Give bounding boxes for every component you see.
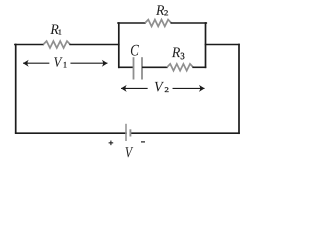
wire bottom (left of battery) (16, 132, 126, 134)
label V1 (54, 57, 66, 67)
arrow V2 left (121, 85, 147, 92)
wire box left edge (118, 23, 120, 67)
label R3 (172, 48, 185, 60)
wire right edge (238, 45, 240, 134)
label V2 (155, 82, 169, 92)
wire bottom (right of battery) (130, 132, 239, 134)
resistor R2 (145, 20, 171, 27)
wire mid-right (box to right edge) (206, 44, 240, 46)
label V (battery) (126, 147, 134, 157)
wire box top branch (right of R2) (171, 22, 206, 24)
label R1 (50, 25, 61, 35)
wire top-left (left of R1) (15, 44, 43, 46)
wire box top branch (left of R2) (118, 22, 145, 24)
capacitor C (134, 57, 143, 79)
resistor R3 (167, 64, 193, 71)
label battery minus (141, 141, 145, 143)
label C (131, 45, 139, 56)
wire box right edge (205, 23, 207, 67)
wire box bottom branch (C to R3) (143, 66, 167, 68)
battery V (126, 124, 130, 141)
arrow V1 right (71, 60, 108, 67)
arrow V1 left (23, 60, 49, 67)
arrow V2 right (173, 85, 205, 92)
wire box bottom branch (right of R3) (193, 66, 205, 68)
wire box bottom branch (left of C) (119, 66, 133, 68)
label R2 (156, 5, 168, 15)
wire left edge (15, 45, 17, 133)
resistor R1 (43, 41, 70, 48)
label battery plus (109, 141, 114, 146)
wire top-left (right of R1, to box) (70, 44, 119, 46)
